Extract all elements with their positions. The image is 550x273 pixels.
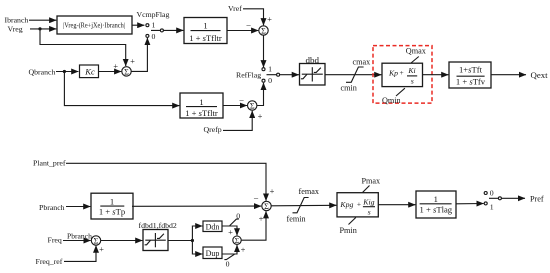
switch RefFlag contact 0 [262, 79, 265, 82]
wire branch down to Dup [192, 241, 202, 255]
switch RefFlag contact 1 [262, 68, 265, 71]
wire S4 to PI controller Kpg [271, 204, 336, 207]
svg-text:femin: femin [287, 215, 306, 224]
wire PI controller to lead-lag [423, 74, 449, 76]
switch VcmpFlag common blade wire to filter block [151, 29, 183, 31]
wire Freq to summer S5 [63, 240, 91, 242]
svg-text:Plant_pref: Plant_pref [33, 159, 66, 168]
svg-text:1 + sTlag: 1 + sTlag [420, 205, 453, 215]
svg-text:Σ: Σ [264, 202, 269, 211]
wire Dup to summer S6 with limiter 0 [222, 245, 237, 254]
svg-text:s: s [368, 208, 371, 217]
svg-text:Qbranch: Qbranch [29, 68, 56, 77]
summer S2 [122, 67, 131, 76]
svg-text:Qmin: Qmin [382, 96, 401, 105]
svg-text:s: s [411, 77, 414, 86]
svg-text:Pref: Pref [530, 194, 544, 203]
wire Plant_pref to summer S4 [66, 163, 266, 200]
svg-text:0: 0 [226, 260, 230, 269]
wire S6 output up to summer S4 [241, 211, 266, 240]
svg-text:Qrefp: Qrefp [204, 125, 222, 134]
wire Qbranch down to lower filter [64, 72, 179, 106]
svg-text:Vreg: Vreg [8, 24, 23, 33]
wire filter to summer S4 [132, 205, 261, 207]
wire fdbd output to branch node [168, 240, 192, 242]
svg-text:+: + [130, 56, 135, 66]
wire Qrefp to summer S3 [223, 111, 252, 131]
svg-text:1: 1 [203, 21, 207, 31]
wire branch up to Ddn [192, 226, 202, 241]
svg-text:1: 1 [199, 97, 203, 107]
wire Pbranch to filter block [66, 206, 90, 208]
svg-text:Σ: Σ [261, 27, 266, 36]
svg-text:Ki: Ki [407, 66, 415, 75]
svg-text:Pmin: Pmin [340, 226, 357, 235]
output switch contact 0 [484, 192, 487, 195]
svg-text:Ddn: Ddn [206, 222, 220, 231]
wire Vreg feedback down to summer S2 [40, 29, 126, 66]
svg-text:Kig: Kig [362, 198, 374, 207]
svg-text:1: 1 [152, 21, 156, 30]
gain block Kc [80, 65, 99, 78]
wire lower filter to summer S3 [223, 105, 247, 107]
wire upper filter to summer S1 [227, 30, 258, 32]
svg-text:1 + sTp: 1 + sTp [99, 207, 125, 217]
gain block Ddn [203, 221, 222, 232]
switch VcmpFlag contact 0 [146, 34, 149, 37]
gain block Dup [203, 247, 222, 259]
wire Qbranch to gain Kc [56, 71, 78, 73]
wire Vref to summer S1 [243, 9, 264, 26]
svg-text:Qmax: Qmax [406, 46, 426, 55]
svg-text:+: + [259, 214, 264, 224]
PI controller block Kpg+Kig/s [337, 193, 378, 217]
svg-text:Kp: Kp [388, 69, 398, 78]
svg-text:+: + [400, 68, 404, 77]
svg-text:1+sTft: 1+sTft [459, 64, 483, 74]
svg-text:Kpg: Kpg [339, 200, 353, 209]
svg-text:+: + [99, 244, 104, 254]
wire S2 output up to VcmpFlag contact 0 [131, 38, 147, 72]
svg-text:Pmax: Pmax [362, 177, 381, 186]
wire S3 output up to RefFlag contact 0 [257, 83, 264, 106]
svg-text:cmin: cmin [341, 84, 357, 93]
svg-text:Ibranch: Ibranch [5, 16, 29, 25]
svg-text:+: + [113, 61, 118, 71]
summer S1 [259, 26, 268, 35]
svg-text:0: 0 [268, 76, 272, 85]
svg-text:1: 1 [110, 196, 114, 206]
node junction after fdbd [191, 239, 194, 242]
svg-text:−: − [246, 21, 251, 31]
svg-text:Σ: Σ [94, 237, 99, 246]
svg-text:+: + [357, 200, 361, 209]
svg-text:Freq_ref: Freq_ref [36, 257, 63, 266]
svg-text:+: + [241, 245, 246, 255]
block transfer function 1/(1+sTlag) [416, 191, 456, 218]
wire dbd to PI controller [325, 74, 381, 76]
block lead-lag (1+sTft)/(1+sTfv) [449, 62, 491, 88]
svg-text:1: 1 [268, 64, 272, 73]
switch RefFlag common blade wire to deadband dbd [267, 74, 299, 76]
svg-text:1 + sTfltr: 1 + sTfltr [189, 33, 222, 43]
wire lead-lag to output Qext [491, 74, 526, 76]
block U1 voltage compensator |Vreg-(Re+jXe)·Ibranch| [57, 16, 132, 34]
deadband block fdbd [143, 230, 168, 251]
svg-text:Σ: Σ [124, 68, 129, 77]
svg-text:|Vreg-(Re+jXe)·Ibranch|: |Vreg-(Re+jXe)·Ibranch| [63, 22, 125, 30]
block transfer function 1/(1+sTfltr) lower [180, 93, 223, 118]
svg-text:1 + sTfltr: 1 + sTfltr [185, 108, 218, 118]
svg-text:1: 1 [490, 202, 494, 211]
output switch common blade wire to Pref [489, 197, 525, 199]
svg-text:Σ: Σ [250, 102, 255, 111]
block transfer function 1/(1+sTfltr) upper [184, 18, 227, 44]
svg-text:VcmpFlag: VcmpFlag [137, 10, 170, 19]
summer S3 [248, 101, 257, 110]
svg-text:femax: femax [299, 187, 319, 196]
wire lag block to output switch contact 1 [456, 203, 484, 205]
PI controller block Kp+Ki/s [382, 63, 423, 86]
svg-text:0: 0 [152, 32, 156, 41]
red dashed limit region [373, 46, 432, 104]
node junction on Vreg wire [38, 27, 41, 30]
wire Kc to summer S2 [99, 71, 121, 73]
summer S6 [233, 236, 241, 244]
block transfer function 1/(1+sTp) [91, 193, 133, 219]
svg-text:0: 0 [490, 189, 494, 198]
wire Kpg to lag block [378, 204, 415, 206]
wire Vreg to compensation block [30, 28, 56, 30]
node junction on Qbranch wire [63, 70, 66, 73]
wire Ddn to summer S6 with limiter 0 [222, 226, 237, 235]
summer S5 [91, 236, 100, 245]
svg-text:+: + [258, 111, 263, 121]
output switch contact 1 [484, 202, 487, 205]
svg-text:+: + [267, 14, 272, 24]
wire Ibranch to compensation block [29, 19, 56, 21]
wire S5 to deadband fdbd [101, 240, 143, 242]
svg-text:Qext: Qext [531, 70, 549, 80]
svg-text:Pbranch: Pbranch [67, 232, 92, 241]
svg-text:fdbd1,fdbd2: fdbd1,fdbd2 [139, 221, 177, 230]
svg-text:0: 0 [236, 211, 240, 220]
svg-text:1: 1 [434, 194, 438, 204]
wire compensator output to VcmpFlag contact 1 [132, 24, 144, 26]
wire Freq_ref to summer S5 [64, 246, 96, 262]
svg-text:Vref: Vref [228, 4, 242, 13]
svg-text:Kc: Kc [84, 67, 95, 77]
svg-text:Freq: Freq [48, 236, 62, 245]
svg-text:−: − [253, 194, 258, 204]
svg-text:Dup: Dup [206, 249, 220, 258]
svg-text:1 + sTfv: 1 + sTfv [456, 77, 486, 87]
switch VcmpFlag contact 1 [146, 24, 149, 27]
deadband block dbd [300, 64, 326, 86]
svg-text:Σ: Σ [235, 236, 240, 245]
svg-text:+: + [228, 227, 233, 237]
svg-text:Pbranch: Pbranch [39, 203, 65, 212]
summer S4 [262, 201, 271, 210]
svg-text:cmax: cmax [353, 58, 371, 67]
wire S1 output down to RefFlag contact 1 [263, 35, 265, 67]
svg-text:+: + [270, 186, 275, 196]
svg-text:RefFlag: RefFlag [236, 71, 261, 80]
svg-text:−: − [239, 96, 244, 106]
